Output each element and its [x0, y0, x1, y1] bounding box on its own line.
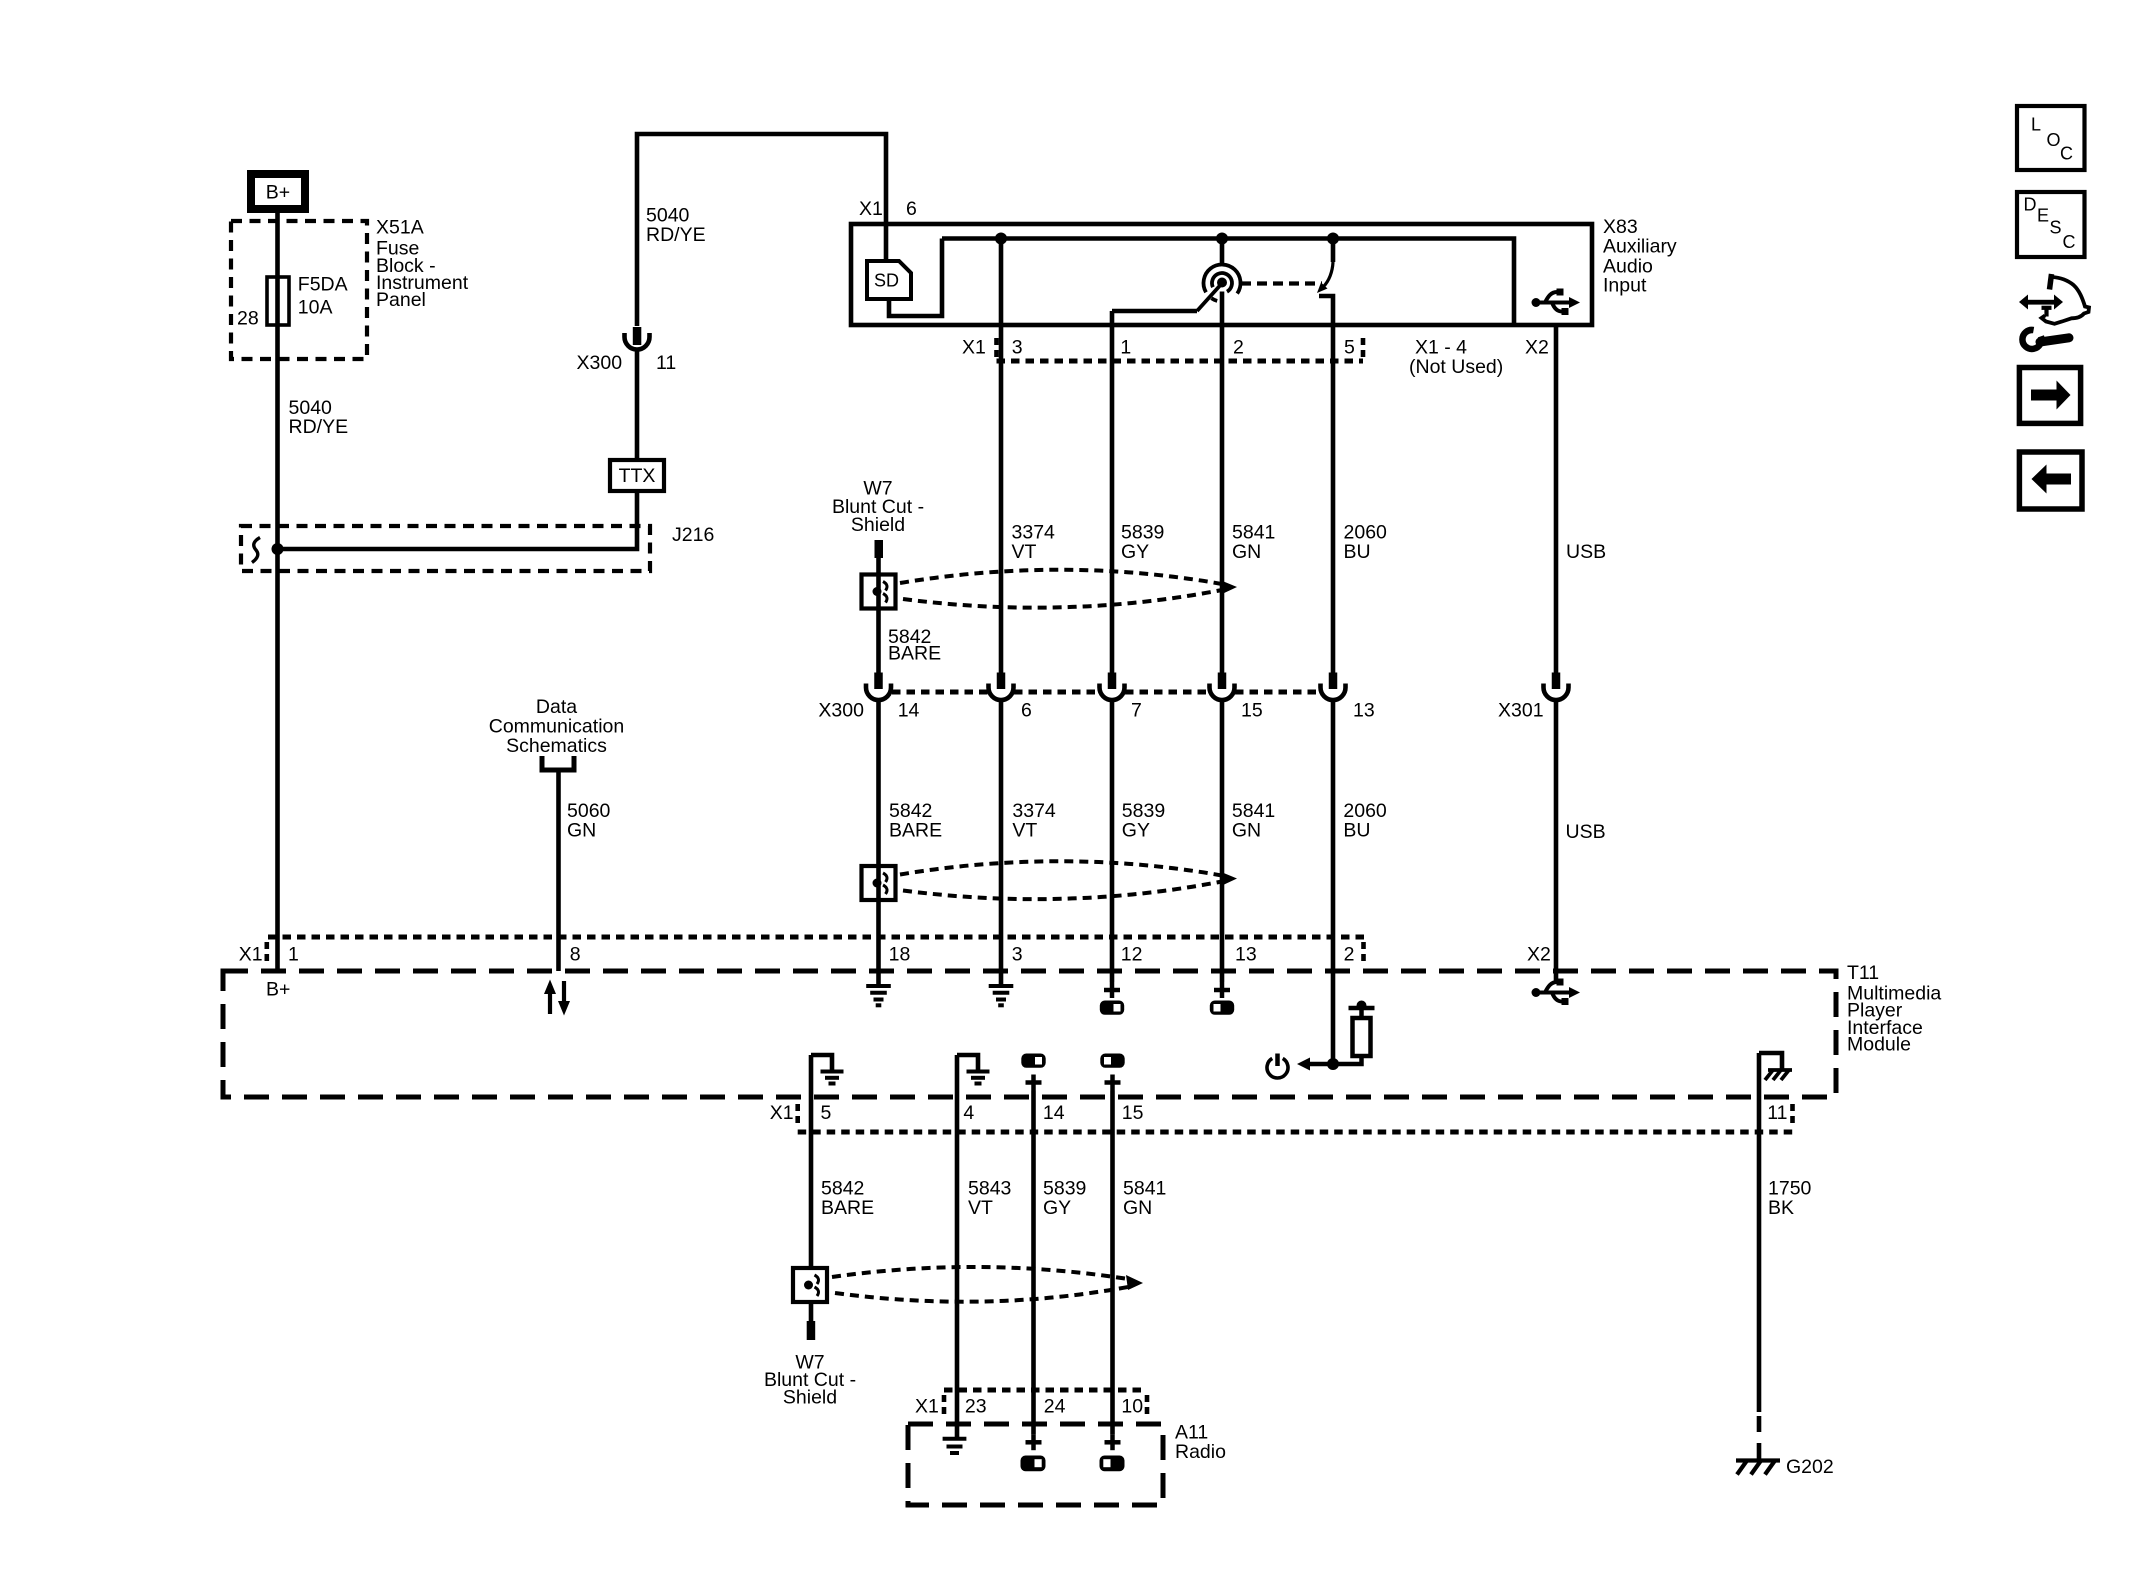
- svg-text:12: 12: [1121, 943, 1143, 965]
- audio channel icon pin 13: [1210, 1001, 1234, 1015]
- X300 / 11 labels: [577, 352, 677, 374]
- arrow to power symbol: [1297, 1058, 1333, 1071]
- Data Communication Schematics label: [489, 696, 624, 757]
- svg-text:S: S: [2050, 218, 2062, 238]
- junction J216: [272, 543, 284, 555]
- svg-text:(Not Used): (Not Used): [1409, 356, 1503, 378]
- ground symbol T11 pin 3: [989, 986, 1014, 1005]
- wire label 3374 VT (middle): [1012, 800, 1056, 842]
- shield termination symbol (upper): [862, 575, 896, 609]
- wire below shield to blunt cut: [809, 1302, 814, 1321]
- nav icon wrench: [2022, 330, 2069, 349]
- svg-text:C: C: [2063, 232, 2076, 252]
- svg-text:BARE: BARE: [888, 642, 941, 664]
- audio channel icon A11 pin 10: [1100, 1456, 1125, 1472]
- wire 5839 GY X300.7 to T11.12: [1110, 700, 1115, 982]
- audio plus symbol pin 12: [1104, 982, 1120, 998]
- svg-text:GY: GY: [1122, 819, 1150, 841]
- SD card icon: [867, 261, 911, 299]
- svg-text:Module: Module: [1847, 1034, 1911, 1056]
- svg-text:1: 1: [1120, 336, 1131, 358]
- svg-text:RD/YE: RD/YE: [289, 416, 349, 438]
- switch arm to jack tip: [1197, 286, 1220, 312]
- wire label 5839 GY (bottom): [1043, 1177, 1086, 1219]
- svg-text:X1: X1: [859, 198, 883, 220]
- svg-text:23: 23: [965, 1395, 987, 1417]
- svg-text:14: 14: [1043, 1102, 1065, 1124]
- svg-text:X1: X1: [962, 336, 986, 358]
- svg-text:7: 7: [1131, 700, 1142, 722]
- svg-text:X83: X83: [1603, 216, 1638, 238]
- resistor in T11: [1333, 1001, 1375, 1065]
- svg-text:E: E: [2037, 206, 2049, 226]
- shield drain wire 5842: [876, 558, 881, 673]
- svg-text:USB: USB: [1566, 821, 1606, 843]
- svg-text:Input: Input: [1603, 274, 1647, 296]
- svg-text:SD: SD: [874, 271, 899, 291]
- X300 connector dotted row: [892, 690, 1320, 695]
- wire label 5843 VT: [968, 1177, 1011, 1219]
- audio channel icon pin 15: [1100, 1054, 1124, 1068]
- chassis ground G202: [1736, 1461, 1780, 1475]
- shield oval (middle): [900, 861, 1237, 899]
- node at pin 3 branch: [995, 233, 1007, 245]
- ground symbol T11 pin 4: [957, 1055, 990, 1084]
- svg-text:F5DA: F5DA: [298, 273, 348, 295]
- svg-text:B+: B+: [266, 182, 290, 204]
- svg-text:8: 8: [570, 943, 581, 965]
- svg-text:1: 1: [288, 943, 299, 965]
- wire 5040 RD/YE top run to X83: [637, 134, 886, 326]
- wire X83 X2 USB: [1554, 325, 1559, 673]
- svg-text:24: 24: [1044, 1395, 1066, 1417]
- dashed wire to G202: [1757, 1416, 1762, 1459]
- wire 5843 VT T11.4 to A11.23: [955, 1055, 960, 1437]
- svg-text:D: D: [2024, 195, 2037, 215]
- connector X300 pin 7: [1100, 673, 1125, 701]
- fuse value label F5DA 10A: [298, 273, 348, 318]
- wire 5040 RD/YE from B+ to T11 pin 1: [275, 213, 280, 971]
- svg-text:GY: GY: [1121, 541, 1149, 563]
- audio channel icon A11 pin 24: [1021, 1456, 1046, 1472]
- A11 Radio label: [1175, 1421, 1226, 1463]
- blunt cut terminal W7 (bottom): [807, 1321, 816, 1340]
- nav icon DESC: [2017, 192, 2085, 257]
- svg-text:B+: B+: [266, 978, 290, 1000]
- power symbol: [1267, 1054, 1288, 1078]
- audio plus symbol A11 pin 24: [1026, 1434, 1042, 1450]
- svg-text:15: 15: [1122, 1102, 1144, 1124]
- svg-text:X301: X301: [1498, 700, 1544, 722]
- wire label 5841 GN (bottom): [1123, 1177, 1166, 1219]
- svg-text:VT: VT: [1012, 819, 1037, 841]
- wire X83 pin 2: [1220, 239, 1225, 267]
- wire 5060 GN: [556, 770, 561, 971]
- svg-text:15: 15: [1241, 700, 1263, 722]
- inline connector TTX: [610, 460, 664, 491]
- svg-text:J216: J216: [672, 524, 714, 546]
- svg-text:4: 4: [963, 1102, 974, 1124]
- fuse block X51A dashed box: [231, 221, 367, 359]
- nav icon back arrow: [2019, 452, 2082, 509]
- svg-text:BU: BU: [1344, 541, 1371, 563]
- junction at pin 2 net: [1327, 1058, 1339, 1070]
- connector X300 pin 14: [866, 673, 891, 701]
- svg-text:TTX: TTX: [619, 465, 656, 487]
- wire label 5841 GN (middle): [1232, 800, 1275, 842]
- svg-text:Shield: Shield: [851, 514, 905, 536]
- off-page connector bracket: [542, 756, 574, 770]
- shield oval (upper): [900, 570, 1237, 608]
- T11 pin row dotted line (top): [267, 937, 1366, 966]
- wire 2060 BU X300.13 to T11.2: [1331, 700, 1336, 1064]
- shield termination symbol (lower): [862, 866, 896, 900]
- svg-text:BU: BU: [1343, 819, 1370, 841]
- wire 5040 RD/YE from TTX to X300: [635, 350, 640, 461]
- svg-text:GN: GN: [1232, 819, 1261, 841]
- A11 pin labels: [915, 1395, 1143, 1417]
- svg-text:11: 11: [1767, 1102, 1787, 1124]
- connector X300 pin 11: [625, 327, 650, 350]
- nav icon connector view: [2019, 274, 2089, 324]
- splice J216 dashed box: [241, 526, 650, 571]
- audio plus symbol A11 pin 10: [1105, 1434, 1121, 1450]
- connector X300 pin 13: [1321, 673, 1346, 701]
- connector X300 pin 15: [1210, 673, 1235, 701]
- svg-text:X1: X1: [239, 943, 263, 965]
- wire 5841 GN T11.15 to A11.10: [1110, 1091, 1115, 1435]
- svg-text:10: 10: [1121, 1395, 1143, 1417]
- svg-text:X300: X300: [577, 352, 623, 374]
- wire 5842 BARE X300.14 to T11.18: [876, 700, 881, 985]
- ground symbol T11 pin 18: [866, 986, 891, 1005]
- svg-text:Panel: Panel: [376, 289, 426, 311]
- X83 pin row bracket X1: [997, 338, 1364, 361]
- svg-text:3: 3: [1012, 943, 1023, 965]
- svg-text:G202: G202: [1786, 1456, 1834, 1478]
- X83 Auxiliary Audio Input label: [1603, 216, 1677, 296]
- wire X83 pin 1 with jack switch arm: [1112, 311, 1197, 673]
- internal bus wire in X83: [942, 239, 1514, 327]
- svg-text:14: 14: [898, 700, 920, 722]
- svg-text:C: C: [2060, 144, 2073, 164]
- nav icon forward arrow: [2019, 368, 2080, 424]
- svg-text:13: 13: [1353, 700, 1375, 722]
- svg-text:5: 5: [1344, 336, 1355, 358]
- svg-text:GN: GN: [567, 819, 596, 841]
- svg-text:X1: X1: [915, 1395, 939, 1417]
- USB symbol in T11: [1532, 979, 1581, 1006]
- svg-text:2: 2: [1233, 336, 1244, 358]
- wire 3374 VT X300.6 to T11.3: [999, 700, 1004, 985]
- svg-text:6: 6: [1021, 700, 1032, 722]
- wire T11 pin5 to shield: [809, 1055, 814, 1268]
- T11 bottom pin row dotted line: [798, 1104, 1793, 1132]
- svg-text:11: 11: [656, 352, 676, 374]
- svg-text:GN: GN: [1123, 1197, 1152, 1219]
- nav icon LOC: [2017, 106, 2085, 170]
- audio channel icon pin 14: [1021, 1054, 1045, 1068]
- wire label 3374 VT (upper): [1012, 521, 1056, 563]
- A11 pin row dotted line: [944, 1390, 1147, 1419]
- X83 pin labels: [962, 336, 1549, 358]
- wire in splice J216: [278, 491, 638, 549]
- fuse F5DA 10A: [267, 277, 289, 325]
- W7 Blunt Cut - Shield label (bottom): [764, 1352, 856, 1409]
- svg-text:6: 6: [906, 198, 917, 220]
- connector X300 pin 6: [989, 673, 1014, 701]
- wire label 1750 BK: [1768, 1177, 1812, 1219]
- audio plus symbol pin 15: [1105, 1075, 1121, 1091]
- audio plus symbol pin 14: [1026, 1075, 1042, 1091]
- svg-text:VT: VT: [968, 1197, 993, 1219]
- shield termination symbol (bottom): [793, 1268, 827, 1302]
- shield oval (bottom): [832, 1267, 1143, 1302]
- svg-text:X2: X2: [1525, 336, 1549, 358]
- svg-text:5: 5: [821, 1102, 832, 1124]
- svg-text:Schematics: Schematics: [506, 735, 607, 757]
- svg-text:Radio: Radio: [1175, 1441, 1226, 1463]
- svg-text:X2: X2: [1527, 943, 1551, 965]
- svg-text:BARE: BARE: [821, 1197, 874, 1219]
- svg-text:USB: USB: [1566, 541, 1606, 563]
- X1 / 6 pin labels at X83: [859, 198, 917, 220]
- svg-text:O: O: [2047, 130, 2061, 150]
- T11 top pin labels: [239, 943, 1551, 965]
- serial data arrows at pin 8: [544, 980, 570, 1016]
- switch contact on pin 5: [1317, 239, 1333, 294]
- svg-text:28: 28: [237, 307, 259, 329]
- svg-text:BARE: BARE: [889, 819, 942, 841]
- B+ terminal: [251, 174, 305, 209]
- svg-text:Shield: Shield: [783, 1387, 837, 1409]
- wire label 5839 GY (middle): [1122, 800, 1165, 842]
- node at pin 5 branch: [1327, 233, 1339, 245]
- USB symbol in X83: [1532, 289, 1581, 316]
- audio jack symbol on pin 2: [1204, 265, 1241, 301]
- wire label 5060 GN: [567, 800, 611, 842]
- svg-text:BK: BK: [1768, 1197, 1794, 1219]
- svg-text:X51A: X51A: [376, 217, 424, 239]
- W7 Blunt Cut - Shield label (top): [832, 477, 924, 536]
- wire label 5842 BARE (middle): [889, 800, 942, 842]
- wire label 2060 BU (middle): [1343, 800, 1387, 842]
- wire label 5839 GY (upper): [1121, 521, 1164, 563]
- chassis ground T11 pin 11: [1759, 1053, 1792, 1080]
- wire X83 pin 5: [1319, 296, 1333, 673]
- wire label 5842 BARE (bottom): [821, 1177, 874, 1219]
- splice hook symbol: [252, 538, 260, 563]
- wire label 5040 RD/YE (left): [289, 397, 349, 438]
- wire X83 pin 3: [999, 239, 1004, 673]
- svg-text:GN: GN: [1232, 541, 1261, 563]
- X51A Fuse Block - Instrument Panel label: [376, 217, 469, 312]
- svg-text:VT: VT: [1012, 541, 1037, 563]
- node at pin 2 branch: [1216, 233, 1228, 245]
- module A11 Radio dashed box: [908, 1424, 1163, 1505]
- wire 5841 GN X300.15 to T11.13: [1220, 700, 1225, 982]
- T11 bottom pin labels: [770, 1102, 1788, 1124]
- svg-text:10A: 10A: [298, 296, 333, 318]
- wire label 5841 GN (upper): [1232, 521, 1275, 563]
- T11 Multimedia Player Interface Module label: [1847, 962, 1941, 1056]
- connector X301: [1544, 673, 1569, 701]
- module X83 Auxiliary Audio Input box: [851, 224, 1592, 325]
- wire USB X301 to T11.X2: [1554, 700, 1559, 984]
- blunt cut terminal W7 (top): [875, 540, 884, 558]
- audio channel icon pin 12: [1100, 1001, 1124, 1015]
- wire label 5842 BARE (upper): [888, 626, 941, 665]
- svg-text:X1: X1: [770, 1102, 794, 1124]
- jack detect dashed line: [1241, 281, 1322, 285]
- X300 row labels: [818, 700, 1543, 722]
- ground symbol T11 pin 5: [811, 1055, 844, 1084]
- X1 - 4 (Not Used) label: [1409, 336, 1503, 378]
- audio plus symbol pin 13: [1214, 982, 1230, 998]
- wire from SD to internal bus: [889, 239, 942, 317]
- wire label 2060 BU (upper): [1344, 521, 1388, 563]
- ground symbol A11 pin 23: [943, 1439, 967, 1453]
- svg-text:T11: T11: [1847, 962, 1879, 984]
- wire 5839 GY T11.14 to A11.24: [1031, 1091, 1036, 1435]
- svg-text:2: 2: [1344, 943, 1355, 965]
- svg-text:RD/YE: RD/YE: [646, 224, 706, 246]
- svg-text:L: L: [2031, 115, 2041, 135]
- svg-text:18: 18: [889, 943, 911, 965]
- svg-text:3: 3: [1012, 336, 1023, 358]
- svg-text:X300: X300: [818, 700, 864, 722]
- svg-text:GY: GY: [1043, 1197, 1071, 1219]
- wire label 5040 RD/YE (middle): [646, 204, 706, 246]
- svg-text:13: 13: [1235, 943, 1257, 965]
- wire 1750 BK T11.11: [1757, 1053, 1762, 1412]
- module T11 dashed box: [223, 971, 1836, 1097]
